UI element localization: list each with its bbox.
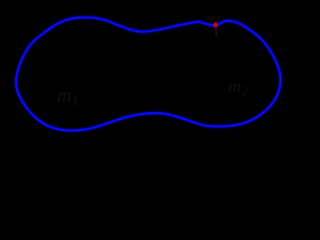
svg-text:m3: m3 [207,12,219,25]
svg-text:m1: m1 [57,85,78,109]
svg-text:m2: m2 [228,76,248,98]
